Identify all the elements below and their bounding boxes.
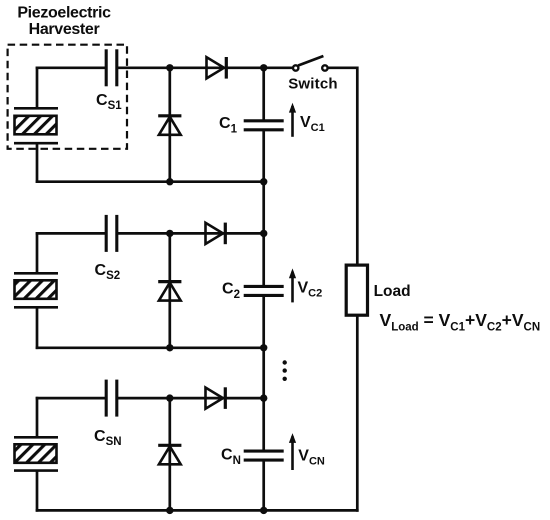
junction dot rail3 capacitor column (260, 507, 267, 514)
wire: capacitor column B1 to C1 (262, 68, 265, 121)
wire: switch to top-right corner and down to load (328, 68, 357, 265)
svg-text:Load: Load (374, 283, 411, 300)
junction dot rail2 shunt column (166, 344, 173, 351)
wire: PZN top to stage3 rail (36, 397, 39, 438)
wire: stage2 bottom rail (36, 346, 264, 349)
arrow VCN (289, 433, 296, 470)
capacitor C1 (244, 121, 284, 130)
svg-text:CN: CN (221, 446, 241, 467)
ellipsis more stages (283, 360, 287, 381)
node A3 junction dot (166, 394, 173, 401)
arrow VC1 (289, 103, 296, 137)
node A1 junction dot (166, 64, 173, 71)
svg-text:CS2: CS2 (95, 262, 121, 282)
diode D6 (shunt, stage3) (158, 445, 181, 464)
diode D5 (series) (206, 387, 226, 409)
wire: shunt column stage3 (168, 398, 171, 510)
svg-text:Harvester: Harvester (29, 21, 100, 38)
svg-text:VLoad = VC1+VC2+VCN: VLoad = VC1+VC2+VCN (380, 310, 541, 334)
label: title Piezoelectric Harvester (17, 5, 111, 39)
piezoelectric transducer PZ2 (14, 273, 58, 307)
wire: PZ2 top to stage2 rail (36, 232, 39, 274)
capacitor CS2 (106, 215, 117, 252)
wire: CSN to node A3 to diode D5 (117, 397, 264, 400)
capacitor CSN (106, 380, 117, 417)
wire: stage1 bottom rail (36, 180, 264, 183)
node B1 junction dot (260, 64, 267, 71)
wire: PZ1 bottom to rail1 (36, 143, 39, 183)
capacitor CS1 (106, 49, 117, 86)
wire: PZ1 top to top rail (36, 67, 39, 110)
svg-text:CS1: CS1 (96, 92, 122, 112)
wire: bottom rail3 full width (36, 509, 359, 512)
capacitor CN (244, 451, 284, 460)
svg-text:C2: C2 (222, 281, 240, 302)
wire: PZN bottom to rail3 (36, 471, 39, 512)
wire: PZ2 bottom to rail2 (36, 307, 39, 349)
svg-text:Switch: Switch (288, 76, 338, 93)
arrow VC2 (289, 268, 296, 302)
junction dot stage3 capacitor column (260, 394, 267, 401)
svg-text:CSN: CSN (94, 428, 122, 448)
svg-text:VC2: VC2 (298, 280, 323, 300)
wire: CN bottom to rail3 (262, 460, 265, 510)
wire: shunt column stage1 (168, 68, 171, 182)
diode D2 (shunt, stage1) (158, 116, 181, 135)
switch SW1 (293, 56, 328, 71)
svg-text:VCN: VCN (298, 448, 325, 468)
node A2 junction dot (166, 230, 173, 237)
junction dot rail1 shunt column (166, 178, 173, 185)
wire: stage3 top rail left segment (36, 397, 107, 400)
wire: CS1 to node A1 to diode D1 (117, 66, 264, 69)
dashed box around piezoelectric harvester (8, 45, 127, 149)
resistor Load (346, 265, 367, 315)
wire: C1 bottom through rail1 and node to C2 (262, 130, 265, 287)
wire: stage1 top rail left segment (36, 66, 107, 69)
junction dot stage2 capacitor column (260, 230, 267, 237)
junction dot rail3 shunt column (166, 507, 173, 514)
wire: stage2 top rail left segment (36, 232, 107, 235)
diode D1 (series) (207, 57, 227, 79)
wire: shunt column stage2 (168, 233, 171, 347)
wire: load bottom to rail3 (356, 315, 359, 512)
diode D3 (series) (206, 223, 226, 245)
wire: CS2 to node A2 to diode D3 (117, 232, 264, 235)
piezoelectric transducer PZN (14, 437, 58, 470)
diode D4 (shunt, stage2) (158, 282, 181, 301)
capacitor C2 (244, 286, 284, 295)
wire: C2 bottom through rail2 down to CN (262, 295, 265, 451)
junction dot rail1 capacitor column (260, 178, 267, 185)
svg-text:C1: C1 (219, 115, 238, 136)
wire: node B1 to switch (264, 66, 293, 69)
junction dot rail2 capacitor column (260, 344, 267, 351)
svg-text:Piezoelectric: Piezoelectric (17, 5, 111, 22)
svg-text:VC1: VC1 (300, 114, 325, 134)
piezoelectric transducer PZ1 (14, 108, 58, 143)
